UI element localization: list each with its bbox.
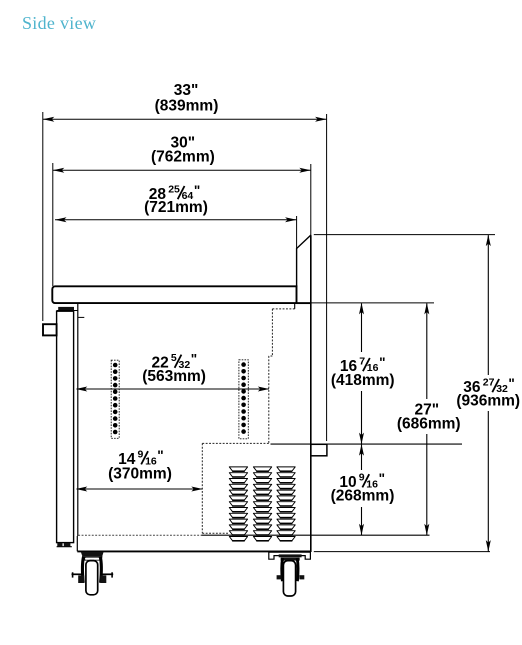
label 14 9/16 in <box>118 448 164 468</box>
worktop slab <box>52 286 296 303</box>
dimension 33in line <box>43 118 327 120</box>
dimension 36-27/32in line lower <box>487 411 489 552</box>
svg-text:Side view: Side view <box>22 13 96 33</box>
svg-text:(936mm): (936mm) <box>456 393 520 410</box>
dimension 16-7/16in line lower <box>361 391 363 444</box>
interior front wall <box>77 303 79 536</box>
compressor compartment dashed outline <box>202 442 268 444</box>
right caster <box>269 552 311 596</box>
svg-text:27: 27 <box>483 376 495 388</box>
reference line counter level right <box>311 302 434 304</box>
svg-text:(686mm): (686mm) <box>397 415 461 432</box>
door handle <box>43 324 57 335</box>
door top hinge strip <box>58 307 74 311</box>
interior floor solid line (extends as reference) <box>202 534 430 536</box>
dimension 36-27/32in line upper <box>487 235 489 375</box>
dimension 27in line lower <box>426 434 428 535</box>
svg-text:(721mm): (721mm) <box>144 199 208 216</box>
dimension 22-5/32in line <box>77 388 270 390</box>
dimension 33in extension line right <box>326 114 328 441</box>
dimension 16-7/16in line upper <box>361 303 363 352</box>
worktop bottom line to body edge <box>297 302 311 304</box>
body front lower edge <box>76 536 78 551</box>
evaporator dashed step <box>294 303 296 309</box>
svg-text:(839mm): (839mm) <box>155 97 219 114</box>
label 22 5/32 in <box>152 352 198 372</box>
dimension 30in extension line right (upper body edge) <box>310 164 312 236</box>
interior ceiling tick <box>78 316 85 318</box>
dimension 33in extension line left <box>42 112 44 321</box>
label 36 27/32 in <box>463 376 515 396</box>
interior floor dashed line <box>78 534 201 536</box>
body right edge <box>310 235 312 552</box>
dimension 28-25/64in extension line right <box>296 216 298 249</box>
svg-text:(563mm): (563mm) <box>142 368 206 385</box>
splash rail back profile <box>297 235 311 287</box>
door bottom hinge <box>57 543 62 547</box>
svg-text:9: 9 <box>138 449 144 461</box>
label 16 7/16 in <box>340 355 386 375</box>
dimension 27in line upper <box>426 303 428 399</box>
label 10 9/16 in <box>339 471 385 491</box>
dimension 10-9/16in line lower <box>361 507 363 535</box>
svg-text:7: 7 <box>359 355 365 367</box>
dimension 28-25/64in line <box>55 219 297 221</box>
shelf pilaster left <box>111 360 119 438</box>
svg-text:(268mm): (268mm) <box>331 488 395 505</box>
svg-text:": " <box>379 355 385 370</box>
rear fitting bump <box>311 444 327 456</box>
dimension 30in extension line left <box>52 163 54 286</box>
svg-text:": " <box>194 183 200 198</box>
svg-text:(418mm): (418mm) <box>331 372 395 389</box>
dimension 14-9/16in line <box>77 488 203 490</box>
dimension 30in line <box>53 169 311 171</box>
door panel <box>57 311 74 542</box>
shelf pilaster right <box>239 360 248 439</box>
reference line top-right <box>314 234 495 236</box>
label 28 25/64 in <box>149 183 201 203</box>
svg-text:(370mm): (370mm) <box>108 466 172 483</box>
svg-text:25: 25 <box>168 183 180 195</box>
condenser vent slots <box>229 467 295 541</box>
svg-text:": " <box>191 352 197 367</box>
svg-text:5: 5 <box>171 352 177 364</box>
body bottom line <box>77 550 310 552</box>
svg-text:9: 9 <box>359 472 365 484</box>
dimension 10-9/16in line upper <box>361 444 363 470</box>
left caster <box>72 552 114 595</box>
svg-text:": " <box>508 376 514 391</box>
reference line mid right <box>271 443 463 445</box>
svg-text:": " <box>379 471 385 486</box>
svg-text:(762mm): (762mm) <box>151 149 215 166</box>
svg-text:": " <box>157 448 163 463</box>
reference line bottom right <box>314 551 490 553</box>
